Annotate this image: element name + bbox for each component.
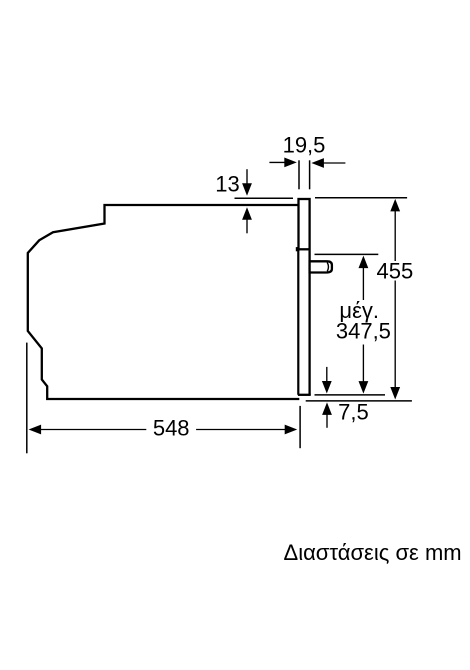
dim 13 down arrow xyxy=(246,169,248,185)
dim 548 left arrowhead xyxy=(29,425,41,435)
door handle knob xyxy=(310,261,332,272)
svg-text:13: 13 xyxy=(215,171,239,196)
caption Diastaseis se mm xyxy=(284,540,462,565)
svg-text:455: 455 xyxy=(377,258,414,283)
dim 455 down arrowhead xyxy=(390,387,400,400)
dim 19,5 right arrow xyxy=(322,162,345,164)
dim 347,5 label line2 xyxy=(336,319,391,344)
svg-text:347,5: 347,5 xyxy=(336,319,391,344)
dim 13 label xyxy=(215,171,239,196)
dim 548 left extension line xyxy=(26,343,28,454)
dim 19,5 label xyxy=(283,132,326,157)
door front right wall xyxy=(308,250,310,394)
fascia notch step xyxy=(296,247,299,251)
dim 13 reference line xyxy=(235,197,294,199)
dim 347,5 line lower segment xyxy=(362,345,364,383)
dim 347,5 bottom reference line xyxy=(315,394,386,396)
dim 455 up arrowhead xyxy=(390,199,400,212)
dim 455 bottom reference line xyxy=(306,400,412,402)
dim 548 label xyxy=(153,415,190,440)
dim 7,5 up arrow xyxy=(326,414,328,428)
dim 7,5 down arrow xyxy=(326,367,328,384)
door front left wall xyxy=(297,247,299,395)
dim 548 line left segment xyxy=(39,429,146,431)
dim 7,5 label xyxy=(338,400,369,425)
svg-text:7,5: 7,5 xyxy=(338,400,369,425)
svg-text:19,5: 19,5 xyxy=(283,132,326,157)
dim 548 line right segment xyxy=(196,429,288,431)
dim 347,5 line upper segment xyxy=(362,267,364,301)
front fascia panel xyxy=(299,199,310,249)
dim 455 top reference line xyxy=(315,197,407,199)
svg-text:548: 548 xyxy=(153,415,190,440)
dim 13 up arrow xyxy=(246,218,248,234)
dim 19,5 extension line right xyxy=(309,160,311,189)
dim 347,5 down arrowhead xyxy=(359,381,369,394)
door bottom channel line xyxy=(298,394,311,396)
dim 548 right extension line xyxy=(299,406,301,448)
dim 347,5 label line1 xyxy=(339,298,379,323)
svg-text:Διαστάσεις σε mm: Διαστάσεις σε mm xyxy=(284,540,462,565)
knob end-cap inner arc xyxy=(327,262,328,271)
dim 347,5 up arrowhead xyxy=(359,256,369,269)
dim 19,5 left arrow xyxy=(269,161,286,163)
dim 19,5 extension line left xyxy=(298,160,300,189)
dim 455 line upper segment xyxy=(394,210,396,262)
dim 455 line lower segment xyxy=(394,281,396,390)
dim 455 label xyxy=(377,258,414,283)
dim 347,5 top reference line xyxy=(315,253,379,255)
dim 548 right arrowhead xyxy=(285,425,298,435)
oven body outline xyxy=(28,205,300,399)
